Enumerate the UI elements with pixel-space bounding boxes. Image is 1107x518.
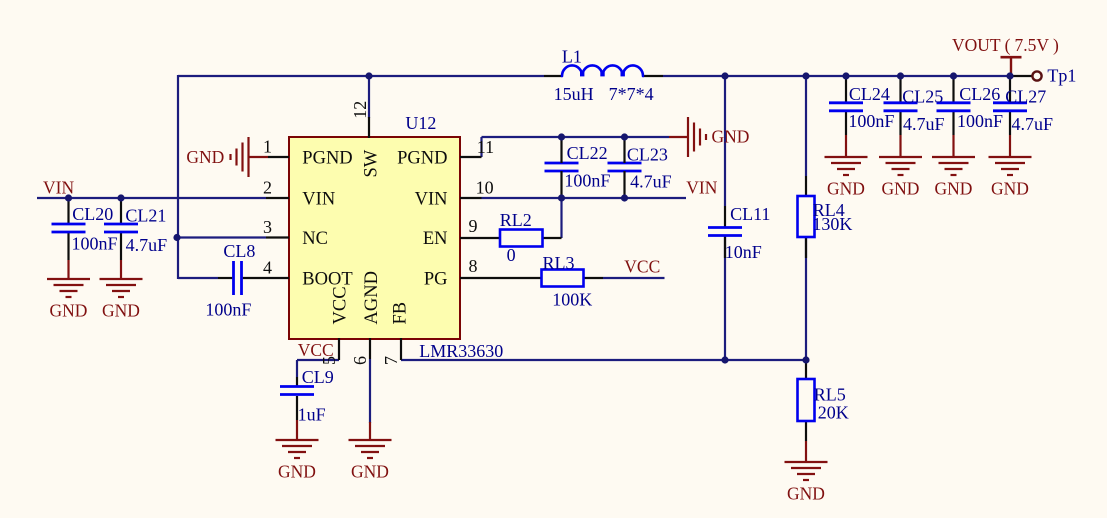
svg-text:4: 4 — [263, 258, 272, 278]
svg-text:PG: PG — [424, 269, 448, 289]
svg-text:PGND: PGND — [397, 148, 447, 168]
svg-text:2: 2 — [263, 178, 272, 198]
svg-text:GND: GND — [882, 179, 920, 199]
svg-text:GND: GND — [991, 179, 1029, 199]
svg-text:10nF: 10nF — [725, 242, 762, 262]
svg-text:SW: SW — [361, 149, 381, 177]
svg-text:CL8: CL8 — [223, 241, 255, 261]
svg-text:3: 3 — [263, 217, 272, 237]
svg-text:PGND: PGND — [302, 148, 352, 168]
svg-text:20K: 20K — [818, 403, 849, 423]
svg-text:CL26: CL26 — [959, 84, 1000, 104]
svg-text:CL22: CL22 — [567, 143, 608, 163]
svg-text:U12: U12 — [405, 113, 436, 133]
svg-text:4.7uF: 4.7uF — [630, 172, 672, 192]
svg-text:CL27: CL27 — [1005, 87, 1046, 107]
svg-text:AGND: AGND — [362, 271, 382, 324]
svg-text:8: 8 — [469, 256, 478, 276]
svg-text:Tp1: Tp1 — [1047, 66, 1076, 86]
svg-text:NC: NC — [302, 229, 328, 249]
svg-text:100nF: 100nF — [564, 171, 610, 191]
svg-text:VCC: VCC — [624, 257, 660, 277]
svg-text:VIN: VIN — [686, 177, 717, 197]
svg-text:CL9: CL9 — [302, 367, 334, 387]
svg-text:6: 6 — [350, 356, 370, 365]
svg-text:1uF: 1uF — [298, 405, 326, 425]
svg-text:LMR33630: LMR33630 — [419, 341, 503, 361]
svg-text:4.7uF: 4.7uF — [903, 114, 945, 134]
svg-text:RL3: RL3 — [543, 253, 575, 273]
svg-text:5: 5 — [319, 356, 339, 365]
svg-text:CL20: CL20 — [72, 204, 113, 224]
svg-text:EN: EN — [423, 229, 448, 249]
svg-text:L1: L1 — [562, 46, 582, 66]
svg-text:4.7uF: 4.7uF — [126, 235, 168, 255]
svg-text:11: 11 — [477, 137, 494, 157]
svg-text:CL21: CL21 — [125, 206, 166, 226]
svg-text:7: 7 — [381, 356, 401, 365]
svg-text:RL2: RL2 — [500, 210, 532, 230]
svg-text:GND: GND — [50, 301, 88, 321]
svg-text:12: 12 — [350, 101, 370, 119]
svg-text:GND: GND — [186, 147, 224, 167]
svg-text:RL5: RL5 — [814, 385, 846, 405]
svg-text:GND: GND — [935, 179, 973, 199]
svg-text:4.7uF: 4.7uF — [1012, 114, 1054, 134]
svg-text:FB: FB — [391, 302, 411, 325]
svg-text:VOUT(7.5V): VOUT(7.5V) — [952, 35, 1059, 55]
svg-text:VIN: VIN — [415, 189, 448, 209]
svg-text:15uH: 15uH — [554, 84, 594, 104]
svg-text:CL23: CL23 — [627, 145, 668, 165]
svg-text:CL11: CL11 — [730, 204, 770, 224]
svg-text:GND: GND — [278, 462, 316, 482]
svg-text:VIN: VIN — [43, 177, 74, 197]
svg-text:100K: 100K — [552, 289, 592, 309]
svg-text:100nF: 100nF — [957, 111, 1003, 131]
svg-text:GND: GND — [827, 179, 865, 199]
svg-text:100nF: 100nF — [848, 111, 894, 131]
svg-text:GND: GND — [102, 301, 140, 321]
svg-text:1: 1 — [263, 137, 272, 157]
svg-text:GND: GND — [712, 127, 750, 147]
svg-text:GND: GND — [351, 462, 389, 482]
svg-text:0: 0 — [507, 245, 516, 265]
svg-text:CL24: CL24 — [849, 84, 890, 104]
svg-text:7*7*4: 7*7*4 — [609, 84, 654, 104]
svg-text:VIN: VIN — [302, 189, 335, 209]
svg-text:9: 9 — [469, 216, 478, 236]
svg-text:CL25: CL25 — [902, 87, 943, 107]
svg-text:130K: 130K — [812, 214, 852, 234]
svg-text:100nF: 100nF — [72, 234, 118, 254]
svg-text:10: 10 — [476, 178, 494, 198]
svg-text:BOOT: BOOT — [302, 269, 352, 289]
svg-text:100nF: 100nF — [205, 300, 251, 320]
svg-text:VCC: VCC — [331, 286, 351, 324]
svg-text:GND: GND — [787, 484, 825, 504]
